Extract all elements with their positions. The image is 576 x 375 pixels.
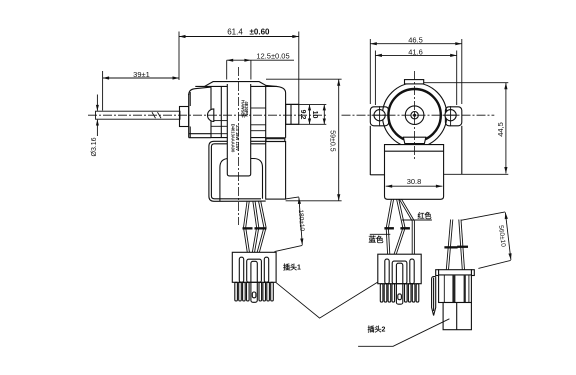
dimension 59+-0.5 — [266, 79, 342, 201]
wires to plug 2 — [386, 199, 414, 271]
dimension 180+-10 — [275, 197, 306, 252]
center line vertical (side view) — [238, 67, 240, 225]
stator bore circle (thick) — [388, 89, 440, 141]
V leader between plugs — [276, 282, 378, 318]
housing right terminal box — [266, 142, 286, 200]
label strip text — [231, 100, 250, 153]
wires to plug 1 — [244, 202, 267, 253]
svg-text:44,5: 44,5 — [496, 122, 505, 137]
svg-text:10: 10 — [311, 111, 318, 119]
label strip — [227, 83, 250, 176]
screw left — [373, 106, 387, 126]
leader line plug 2 — [358, 319, 449, 347]
wire color label blue — [369, 234, 391, 244]
connector 3 lower box — [443, 303, 471, 330]
plug 1 teeth — [235, 282, 274, 301]
svg-text:D4613AAAA00: D4613AAAA00 — [231, 124, 236, 153]
svg-text:插头2: 插头2 — [368, 325, 386, 334]
mounting ear left — [370, 107, 388, 126]
wire ties plug 2 — [384, 227, 394, 229]
top tab — [405, 80, 424, 84]
center line horizontal (side view) — [88, 114, 326, 116]
wire ties connector 3 — [444, 246, 457, 248]
plug 2 teeth — [380, 284, 419, 302]
wire ties plug 1 — [243, 227, 253, 229]
dimension 30.8 — [386, 177, 443, 188]
dimension 39+-1 — [103, 70, 179, 111]
connector 3 latch hook — [432, 277, 436, 316]
terminal box front — [385, 145, 444, 200]
svg-text:红色: 红色 — [418, 211, 432, 220]
svg-text:61.4: 61.4 — [227, 27, 243, 36]
top label bump — [205, 82, 268, 87]
center line vertical (front view) — [414, 71, 416, 161]
svg-text:Ø3.16: Ø3.16 — [91, 137, 98, 156]
svg-text:59±0.5: 59±0.5 — [329, 130, 336, 151]
wire color label red — [402, 211, 432, 220]
lower housing inner line — [211, 144, 265, 199]
svg-text:41.6: 41.6 — [408, 47, 423, 56]
svg-text:46.5: 46.5 — [408, 36, 423, 45]
dimension dia 3.16 — [91, 95, 99, 157]
dimension 46.5 — [370, 36, 462, 104]
screw right — [444, 106, 458, 126]
motor body outline — [189, 85, 286, 141]
hub circles — [405, 106, 424, 125]
svg-text:插头1: 插头1 — [283, 263, 301, 272]
connector 3 body — [436, 270, 475, 303]
dimension 12.5+-0.05 — [227, 52, 294, 80]
svg-text:蓝色: 蓝色 — [369, 234, 384, 244]
svg-text:30.8: 30.8 — [407, 177, 422, 186]
plug 2 body — [378, 254, 421, 304]
svg-text:9.2: 9.2 — [299, 110, 306, 120]
plug 1 body — [232, 252, 276, 302]
rear shaft boss — [286, 104, 299, 124]
outer housing circle — [382, 83, 446, 147]
dimensions 9.2 and 10 — [286, 105, 327, 125]
dimension 41.6 — [375, 47, 456, 105]
dimension 560+-10 — [461, 212, 512, 269]
stator lamination lines right — [251, 108, 266, 131]
svg-text:±0.60: ±0.60 — [250, 27, 271, 36]
dimension 61.4 +-0.60 — [179, 27, 299, 104]
center line horizontal (front view) — [342, 114, 495, 116]
mounting ear right — [445, 107, 461, 126]
bearing arc — [208, 109, 214, 122]
svg-text:2.4 18W 115V: 2.4 18W 115V — [235, 125, 240, 151]
dimension 44.5 — [424, 83, 508, 174]
bottom neck tab — [403, 137, 425, 143]
svg-text:12.5±0.05: 12.5±0.05 — [256, 52, 289, 61]
stator lamination lines left — [211, 121, 227, 134]
shaft hub (front bearing boss) — [180, 107, 189, 127]
svg-text:HAWSBF: HAWSBF — [241, 100, 246, 118]
housing window — [220, 159, 263, 202]
bracket plate sides — [369, 126, 371, 175]
svg-text:39±1: 39±1 — [133, 70, 150, 79]
shaft — [96, 111, 181, 119]
lower housing outer — [209, 141, 266, 201]
wires of connector 3 — [446, 220, 464, 270]
